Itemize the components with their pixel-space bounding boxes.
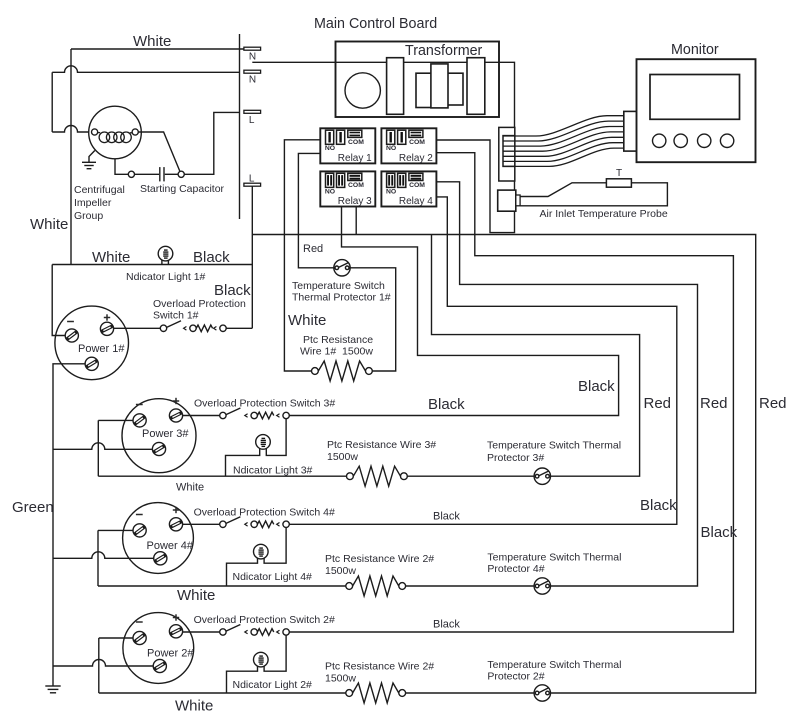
motor Power 4# [123, 503, 194, 574]
svg-text:1500w: 1500w [327, 451, 358, 463]
svg-text:Ndicator Light 1#: Ndicator Light 1# [126, 271, 206, 283]
overload protection switch 3# [183, 408, 290, 419]
temperature switch thermal protector 3# [534, 468, 550, 484]
wire relay1 pin lower to temp switch 1 [298, 153, 333, 267]
svg-text:NO: NO [325, 188, 335, 195]
ptc resistance wire 2# (row4) [346, 583, 353, 590]
svg-text:White: White [176, 482, 204, 494]
svg-text:Centrifugal: Centrifugal [74, 184, 125, 196]
indicator light 2# [253, 652, 268, 667]
terminal L2 [244, 183, 261, 186]
indicator light 3 leads [226, 419, 287, 477]
wire temp switch 1 to ptc1 right [350, 268, 396, 371]
svg-text:White: White [30, 216, 68, 233]
terminal N2 [244, 70, 261, 73]
wire L long run to protector 2 (Red) [252, 235, 755, 694]
air inlet temperature probe loop [520, 183, 667, 206]
svg-text:L: L [249, 174, 255, 185]
monitor [637, 59, 756, 162]
svg-text:Red: Red [700, 395, 728, 412]
svg-text:Power 3#: Power 3# [142, 428, 189, 440]
indicator light 3# [256, 435, 271, 450]
indicator light 4 leads [227, 528, 287, 587]
temperature switch thermal protector 4# [534, 578, 550, 594]
svg-text:Relay 1: Relay 1 [338, 153, 372, 164]
svg-text:Ptc Resistance Wire 2#: Ptc Resistance Wire 2# [325, 553, 434, 565]
wire relay2 lower to overload switch 2 (Black) [289, 153, 733, 632]
temperature switch thermal protector 2# [534, 685, 550, 701]
svg-text:Black: Black [578, 378, 615, 395]
svg-text:COM: COM [409, 139, 425, 146]
svg-text:Black: Black [640, 497, 677, 514]
svg-text:White: White [288, 312, 326, 329]
svg-text:COM: COM [348, 182, 364, 189]
wire relay3 pin2 to long run [355, 207, 357, 235]
svg-text:COM: COM [348, 139, 364, 146]
ribbon wires to monitor [503, 116, 624, 167]
wire green branch to power3 bottom [53, 443, 152, 449]
svg-text:White: White [177, 587, 215, 604]
wire L2 down to overload switch 1 [251, 186, 253, 328]
svg-text:Starting Capacitor: Starting Capacitor [140, 183, 225, 195]
svg-text:Relay 2: Relay 2 [399, 153, 433, 164]
wire white row4 [98, 585, 534, 587]
transformer circle [345, 73, 380, 108]
impeller coil [98, 132, 101, 134]
motor Power 3# [122, 398, 196, 473]
svg-text:Power 1#: Power 1# [78, 343, 125, 355]
transformer rect B [467, 58, 485, 115]
svg-text:Wire 1# 1500w: Wire 1# 1500w [300, 346, 373, 358]
wire to impeller left terminal with hop [52, 126, 91, 132]
svg-text:Black: Black [433, 619, 460, 631]
svg-text:L: L [249, 115, 255, 126]
ptc resistance wire 2# (row2) [346, 690, 353, 697]
svg-text:Ptc Resistance Wire 3#: Ptc Resistance Wire 3# [327, 439, 436, 451]
svg-text:N: N [249, 75, 256, 86]
svg-text:Relay 4: Relay 4 [399, 196, 433, 207]
terminal L1 [244, 110, 261, 113]
wire green branch to power2 bottom [53, 660, 153, 667]
wire relay3 pin1 to overload switch 3 (Black) [289, 207, 618, 416]
svg-text:Temperature Switch Thermal: Temperature Switch Thermal [487, 440, 621, 452]
wire top white horizontal [71, 48, 244, 50]
terminal N1 [244, 47, 261, 50]
svg-text:Protector 2#: Protector 2# [487, 671, 544, 683]
svg-text:Temperature Switch: Temperature Switch [292, 280, 385, 292]
svg-text:Impeller: Impeller [74, 197, 112, 209]
svg-text:Transformer: Transformer [405, 43, 483, 59]
svg-text:Ptc Resistance Wire 2#: Ptc Resistance Wire 2# [325, 661, 434, 673]
wire impeller bottom to capacitor [115, 159, 128, 175]
svg-text:Black: Black [428, 396, 465, 413]
ptc resistance wire 3# [347, 473, 354, 480]
svg-text:Overload Protection Switch 2#: Overload Protection Switch 2# [194, 614, 335, 626]
indicator light 2 leads [227, 635, 287, 693]
motor Power 2# [123, 613, 194, 684]
svg-text:Overload Protection: Overload Protection [153, 298, 246, 310]
svg-text:White: White [133, 33, 171, 50]
svg-text:Air Inlet Temperature Probe: Air Inlet Temperature Probe [540, 208, 668, 220]
motor Power 1# [55, 306, 129, 380]
monitor buttons [653, 134, 734, 147]
svg-text:T: T [616, 168, 622, 179]
svg-text:Overload Protection Switch 3#: Overload Protection Switch 3# [194, 398, 335, 410]
wire N2 horizontal with hop [52, 66, 239, 73]
svg-text:Temperature Switch Thermal: Temperature Switch Thermal [487, 552, 621, 564]
ground (green) [45, 686, 60, 693]
svg-text:Protector 3#: Protector 3# [487, 452, 544, 464]
probe connector on board [498, 190, 516, 211]
wire white down to power1 minus [52, 265, 65, 336]
transformer core center [431, 64, 448, 108]
svg-text:Red: Red [644, 395, 672, 412]
svg-text:NO: NO [325, 145, 335, 152]
overload protection switch 1# [114, 321, 253, 332]
svg-text:Black: Black [214, 282, 251, 299]
svg-text:Power 2#: Power 2# [147, 648, 194, 660]
wire green branch to power4 bottom [53, 552, 154, 558]
svg-text:White: White [175, 698, 213, 715]
wire left loop vertical [51, 72, 53, 132]
wire white row2 [99, 692, 534, 694]
wire white down power3 minus [98, 420, 133, 476]
wire white down power2 minus [99, 638, 133, 693]
transformer core left [416, 73, 432, 107]
svg-text:Switch 1#: Switch 1# [153, 310, 199, 322]
svg-text:Red: Red [303, 243, 323, 255]
svg-text:Overload Protection Switch 4#: Overload Protection Switch 4# [194, 507, 335, 519]
svg-text:Relay 3: Relay 3 [338, 196, 372, 207]
ground (impeller) [82, 151, 96, 169]
svg-text:White: White [92, 249, 130, 266]
svg-text:Temperature Switch Thermal: Temperature Switch Thermal [487, 659, 621, 671]
svg-text:Red: Red [759, 395, 787, 412]
wire relay4 upper to protector 4 [436, 182, 697, 586]
indicator light 1 leads [162, 260, 169, 264]
wire green: power1 bottom to ground [53, 364, 85, 686]
wire impeller right terminal to capacitor (diagonal) [138, 132, 180, 172]
svg-text:Black: Black [701, 524, 738, 541]
svg-text:Ndicator Light 4#: Ndicator Light 4# [233, 571, 313, 583]
svg-text:Black: Black [193, 249, 230, 266]
relay Relay 1 [320, 128, 375, 164]
svg-text:Ptc Resistance: Ptc Resistance [303, 334, 373, 346]
relay Relay 2 [381, 128, 436, 164]
svg-text:Ndicator Light 2#: Ndicator Light 2# [233, 679, 313, 691]
temperature switch thermal protector 1# [334, 260, 350, 276]
svg-text:NO: NO [386, 145, 396, 152]
svg-text:1500w: 1500w [325, 565, 356, 577]
svg-text:Green: Green [12, 499, 54, 516]
bus bar vertical [239, 34, 241, 219]
svg-text:Thermal Protector 1#: Thermal Protector 1# [292, 292, 391, 304]
svg-text:COM: COM [409, 182, 425, 189]
wire indicator light 1 run [52, 264, 252, 266]
wire white left vertical [70, 49, 72, 265]
relay Relay 4 [381, 171, 436, 207]
thermistor T [606, 179, 631, 187]
svg-text:Protector 4#: Protector 4# [487, 563, 544, 575]
relay Relay 3 [320, 171, 375, 207]
wire white row3 [98, 475, 534, 477]
transformer rect A [387, 58, 404, 115]
indicator light 1# [158, 246, 173, 261]
overload protection switch 2# [183, 625, 290, 636]
transformer core right [447, 73, 463, 105]
wire N to board [252, 62, 514, 232]
svg-text:Black: Black [433, 511, 460, 523]
centrifugal impeller group motor [89, 106, 142, 159]
wire relay1 pin upper to ptc1 left [284, 140, 320, 371]
wire branch to protector 3 (Red) [432, 235, 640, 477]
svg-text:Power 4#: Power 4# [147, 540, 194, 552]
wire relay4 lower to overload switch 4 (Black) [289, 197, 677, 524]
svg-text:Main Control Board: Main Control Board [314, 16, 437, 32]
starting capacitor [128, 167, 184, 181]
indicator light 4# [253, 544, 268, 559]
board wire connector [499, 127, 515, 181]
monitor connector [624, 111, 637, 151]
overload protection switch 4# [183, 517, 290, 528]
svg-text:Group: Group [74, 210, 103, 222]
svg-text:N: N [249, 52, 256, 63]
transformer box [336, 42, 500, 118]
wire capacitor to L terminal [184, 112, 239, 174]
ptc resistance wire 1# [312, 368, 319, 375]
svg-text:Ndicator Light 3#: Ndicator Light 3# [233, 465, 313, 477]
wire white down power4 minus [98, 530, 133, 586]
svg-text:1500w: 1500w [325, 673, 356, 685]
svg-text:Monitor: Monitor [671, 42, 719, 58]
svg-text:NO: NO [386, 188, 396, 195]
